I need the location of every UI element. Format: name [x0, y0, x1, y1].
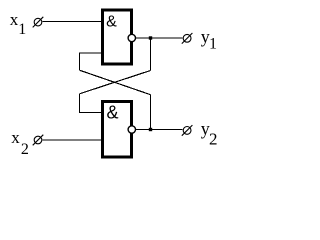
svg-text:1: 1 — [209, 36, 217, 53]
svg-text:2: 2 — [209, 129, 218, 148]
svg-text:&: & — [107, 103, 119, 123]
svg-text:x: x — [11, 128, 20, 147]
svg-text:2: 2 — [21, 141, 29, 158]
svg-text:&: & — [106, 14, 117, 31]
svg-text:1: 1 — [18, 21, 26, 38]
